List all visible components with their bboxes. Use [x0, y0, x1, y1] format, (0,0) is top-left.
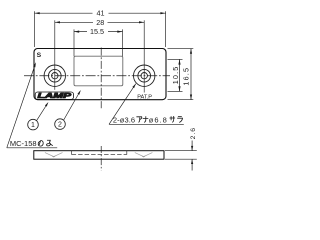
katakana SA: [170, 116, 176, 122]
svg-text:MC-158: MC-158: [10, 139, 37, 148]
svg-text:1: 1: [31, 122, 35, 129]
leader for hole note: [109, 84, 136, 125]
dim 2.6 extension lines: [165, 150, 197, 152]
right hole vertical centerline / 28 extension: [143, 20, 145, 92]
LAMP logo box: [35, 92, 73, 99]
dim 16.5 arrows: [190, 49, 192, 54]
left hole (countersunk): [44, 65, 65, 86]
left hole vertical centerline / 28 extension: [54, 20, 56, 90]
side view vertical centerline: [100, 146, 102, 171]
dim 15.5 line: [74, 31, 123, 33]
dim 2.6 arrows: [191, 146, 193, 151]
svg-text:2-ø3.6: 2-ø3.6: [113, 115, 135, 124]
MC-158 only label: [10, 139, 53, 148]
side view right countersink: [135, 153, 153, 157]
balloon 1 leader: [37, 104, 48, 121]
svg-text:10.5: 10.5: [171, 66, 180, 85]
svg-text:S: S: [37, 52, 42, 59]
svg-text:16.5: 16.5: [182, 67, 191, 86]
horizontal centerline: [24, 75, 170, 77]
hiragana NO: [38, 140, 43, 146]
balloon 1: [28, 119, 39, 130]
MC-158 label underline: [7, 147, 57, 149]
dim 41 line: [35, 12, 166, 14]
dim 10.5 line: [179, 59, 181, 91]
side view outline: [34, 151, 164, 160]
dim 28 line: [55, 21, 144, 23]
dim 10.5 extension lines (right): [168, 58, 183, 60]
svg-text:ø6.8: ø6.8: [149, 115, 168, 124]
hiragana MI: [47, 140, 53, 146]
svg-text:LAMP: LAMP: [38, 93, 72, 100]
svg-text:2: 2: [58, 122, 62, 129]
svg-text:41: 41: [97, 9, 105, 18]
dim 16.5 extension lines (right): [168, 48, 194, 50]
balloon 2 leader: [64, 91, 80, 120]
dim 41 arrows: [35, 12, 40, 14]
side view left countersink: [45, 153, 63, 157]
balloon 2: [55, 119, 66, 130]
svg-text:15.5: 15.5: [90, 27, 104, 36]
recess rectangle (inner): [74, 56, 123, 86]
dim 16.5 line: [190, 49, 192, 100]
dim 10.5 arrows: [178, 59, 180, 64]
hole note text: 2-ø3.6 holes, ø6.8 countersink: [113, 115, 183, 124]
svg-text:2.6: 2.6: [190, 127, 197, 139]
dim 15.5 extension lines: [73, 29, 75, 56]
dim 2.6 line segments: [191, 141, 193, 151]
dim 28 arrows: [55, 21, 60, 23]
right hole (countersunk): [134, 65, 155, 86]
svg-text:28: 28: [96, 18, 104, 27]
part vertical centerline (main view): [100, 48, 102, 109]
dim 41 extension lines: [34, 11, 36, 47]
katakana RA: [177, 116, 182, 122]
katakana NA: [143, 116, 149, 122]
plate outline (top view of strike plate): [34, 49, 166, 100]
hole note underline: [109, 123, 184, 125]
svg-text:PAT.P: PAT.P: [137, 94, 152, 100]
dim 15.5 arrows: [74, 31, 79, 33]
leader from MC-158 label to S stamp: [7, 64, 36, 148]
katakana A: [136, 117, 142, 123]
side view recess hidden lines: [71, 151, 73, 155]
